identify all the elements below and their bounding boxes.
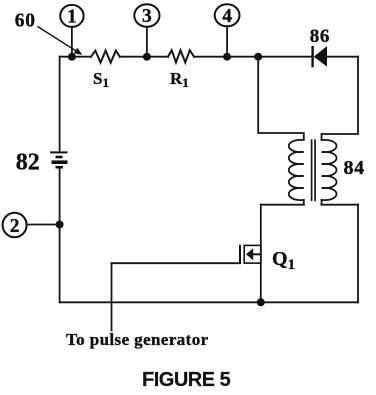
wire drain box top-right segment	[322, 204, 359, 206]
junction dot at node3 on rail	[143, 53, 151, 61]
wire gate horizontal	[112, 262, 241, 264]
svg-text:86: 86	[310, 26, 330, 47]
wire node 4 stem	[226, 26, 228, 56]
wire gate vertical to pulse generator	[111, 263, 113, 330]
svg-text:To pulse generator: To pulse generator	[66, 330, 209, 349]
svg-text:1: 1	[67, 7, 77, 28]
transformer 84 primary winding	[289, 140, 304, 200]
svg-text:FIGURE 5: FIGURE 5	[142, 369, 231, 391]
wire diode-branch vertical to primary	[258, 57, 304, 140]
wire primary bottom lead	[303, 200, 305, 205]
diode 86	[313, 46, 327, 67]
wire top rail left segment	[60, 56, 91, 58]
transformer 84 secondary winding	[322, 140, 337, 200]
svg-text:82: 82	[16, 150, 40, 176]
node 2	[3, 213, 27, 237]
junction dot at diode branch	[254, 53, 262, 61]
svg-text:2: 2	[10, 216, 20, 237]
junction dot at box bottom-left	[257, 298, 265, 306]
wire diode cathode to top-right corner	[327, 56, 359, 58]
wire between S1 and R1	[120, 56, 168, 58]
wire left rail upper	[59, 57, 61, 152]
transformer 84 core lines	[312, 139, 316, 201]
resistor R1 zigzag	[168, 50, 194, 62]
junction dot at node2	[56, 221, 64, 229]
junction dot at node1 on rail	[68, 53, 76, 61]
wire drain box right edge	[357, 205, 359, 303]
wire node 2 stub	[27, 224, 60, 226]
transistor Q1	[240, 245, 261, 264]
node 3	[134, 4, 159, 27]
node 1	[60, 5, 83, 28]
wire left rail lower	[59, 168, 61, 302]
wire drain box top-left segment	[261, 204, 304, 206]
wire secondary bottom lead	[321, 200, 323, 205]
node 4	[215, 4, 240, 27]
junction dot at node4 on rail	[223, 53, 231, 61]
wire node 3 stem	[146, 27, 148, 57]
svg-text:84: 84	[344, 157, 365, 179]
wire bottom rail	[60, 301, 358, 303]
wire drain box left edge	[260, 205, 262, 303]
switch S1 zigzag	[91, 51, 120, 63]
wire right side down to secondary	[322, 57, 359, 140]
svg-text:3: 3	[142, 6, 152, 27]
svg-text:S1: S1	[93, 69, 109, 90]
svg-text:R1: R1	[170, 69, 189, 90]
battery 82	[50, 152, 68, 167]
wire node 1 stem	[71, 27, 73, 57]
label 60 leader arrow	[37, 26, 82, 55]
wire between R1 and diode	[194, 56, 312, 58]
svg-text:4: 4	[222, 6, 232, 27]
svg-text:Q1: Q1	[272, 248, 295, 273]
svg-text:60: 60	[15, 10, 36, 31]
